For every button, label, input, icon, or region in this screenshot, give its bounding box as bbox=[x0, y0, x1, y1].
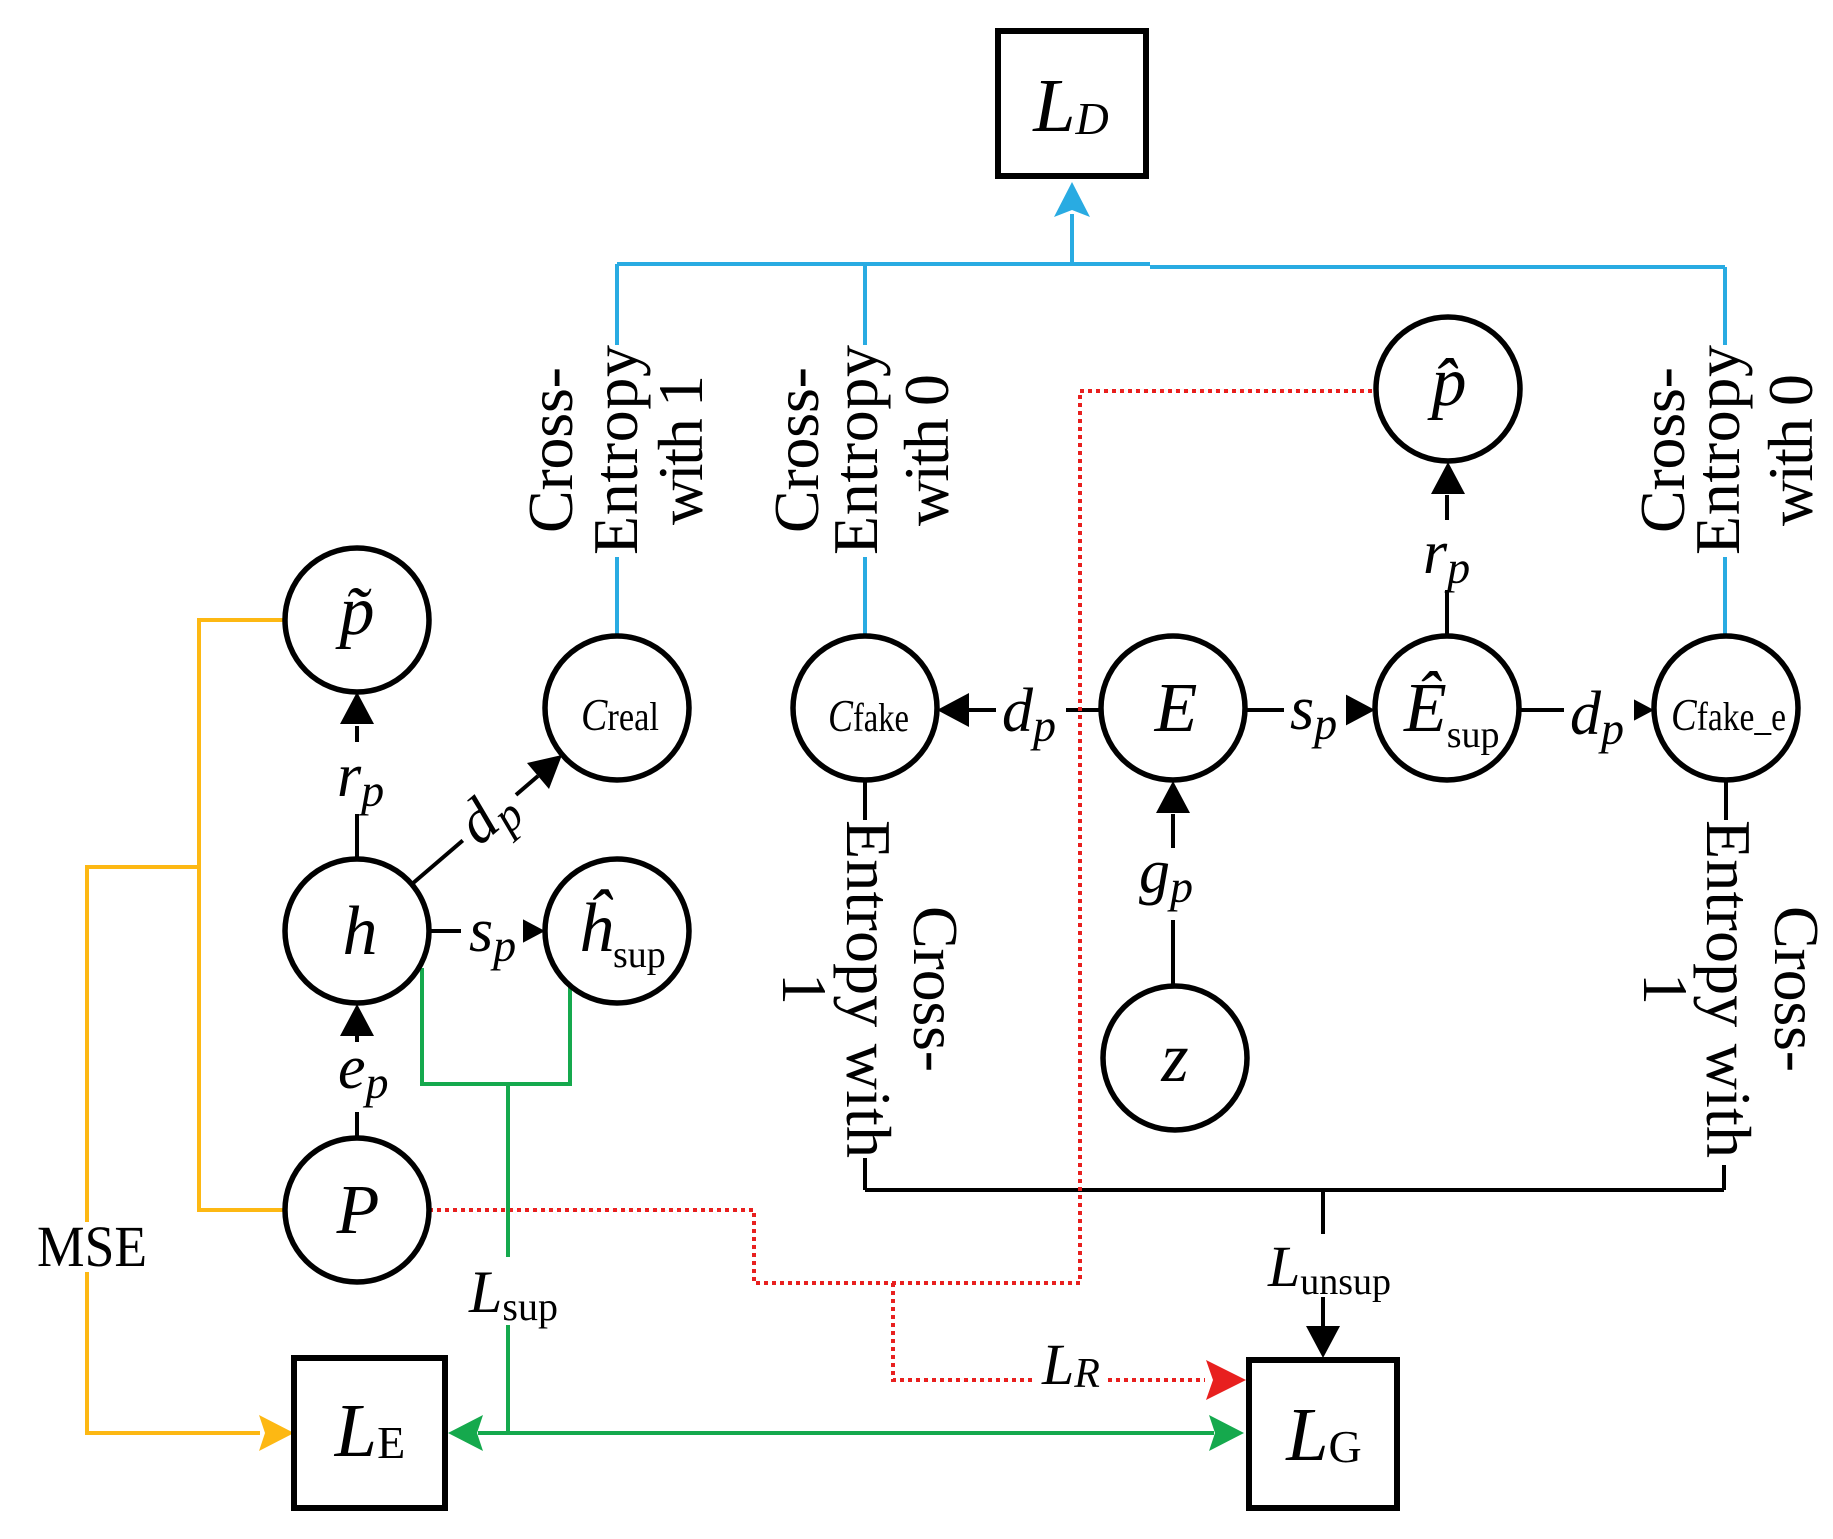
svg-text:Cfake_e: Cfake_e bbox=[1671, 689, 1786, 740]
svg-text:with 0: with 0 bbox=[891, 374, 962, 526]
svg-text:Entropy with: Entropy with bbox=[1693, 820, 1764, 1158]
svg-text:p̃: p̃ bbox=[335, 573, 375, 650]
svg-text:Entropy: Entropy bbox=[580, 345, 651, 555]
svg-text:with 0: with 0 bbox=[1755, 374, 1826, 526]
svg-text:with 1: with 1 bbox=[645, 375, 716, 525]
svg-text:z: z bbox=[1160, 1020, 1188, 1097]
svg-text:Lsup: Lsup bbox=[468, 1259, 558, 1329]
svg-text:Cross-: Cross- bbox=[1761, 906, 1832, 1072]
svg-text:1: 1 bbox=[1630, 973, 1701, 1005]
svg-text:Entropy with: Entropy with bbox=[833, 820, 904, 1158]
svg-text:Cross-: Cross- bbox=[900, 906, 971, 1072]
svg-text:Cross-: Cross- bbox=[515, 367, 586, 533]
svg-text:Cfake: Cfake bbox=[828, 690, 909, 741]
svg-text:Entropy: Entropy bbox=[1682, 345, 1753, 555]
svg-text:p̂: p̂ bbox=[1427, 344, 1467, 421]
svg-text:LR: LR bbox=[1041, 1332, 1100, 1397]
svg-text:E: E bbox=[1154, 670, 1198, 747]
svg-text:MSE: MSE bbox=[37, 1214, 147, 1279]
svg-text:h: h bbox=[343, 893, 378, 970]
svg-text:Entropy: Entropy bbox=[820, 345, 891, 555]
svg-text:1: 1 bbox=[769, 973, 840, 1005]
svg-text:P: P bbox=[336, 1172, 380, 1249]
svg-text:Creal: Creal bbox=[581, 689, 659, 740]
